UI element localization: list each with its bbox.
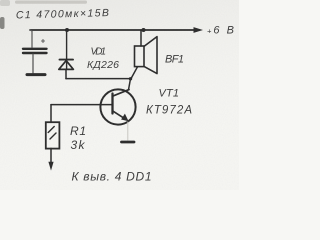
- wire R1 bottom lead: [50, 148, 52, 162]
- svg-text:3k: 3k: [71, 138, 86, 152]
- svg-text:VD1: VD1: [91, 47, 107, 58]
- wire base lead: [51, 104, 113, 106]
- transistor Q VT1 КТ972А: [100, 89, 135, 124]
- wire collector net horizontal: [66, 78, 131, 80]
- wire capacitor bottom lead: [32, 54, 34, 73]
- wire +6V bus: [30, 29, 195, 31]
- ground (chassis bar under emitter): [122, 141, 135, 144]
- wire collector lead down to transistor: [129, 79, 131, 90]
- svg-text:КД226: КД226: [87, 59, 119, 71]
- svg-text:BF1: BF1: [165, 54, 184, 66]
- svg-text:VT1: VT1: [159, 88, 180, 100]
- wire capacitor top lead: [30, 30, 32, 47]
- ground (chassis bar under C1): [27, 73, 45, 76]
- wire diode bottom lead: [65, 69, 67, 78]
- svg-text:КТ972А: КТ972А: [146, 105, 192, 117]
- arrow to +6V: [194, 27, 204, 33]
- svg-text:R1: R1: [70, 124, 86, 138]
- node junction dot (speaker tap): [142, 28, 146, 32]
- wire down to R1: [50, 105, 52, 123]
- diode VD1 КД226: [59, 60, 74, 70]
- arrow to DD1 pin 4: [48, 162, 53, 171]
- wire diode top lead: [66, 30, 68, 69]
- scan smudges: [0, 17, 5, 29]
- svg-text:С1 4700мк×15В: С1 4700мк×15В: [16, 7, 109, 21]
- wire speaker top lead: [140, 30, 142, 46]
- resistor R1: [46, 122, 60, 148]
- paper background: [0, 0, 239, 190]
- capacitor C1: [23, 40, 47, 54]
- wire emitter lead (very faint in scan): [127, 122, 129, 140]
- svg-text:К выв. 4 DD1: К выв. 4 DD1: [72, 170, 152, 184]
- node junction (collector node): [129, 77, 132, 80]
- speaker BF1: [135, 37, 158, 74]
- node junction dot (diode tap): [65, 28, 69, 32]
- wire speaker bottom lead: [131, 67, 138, 79]
